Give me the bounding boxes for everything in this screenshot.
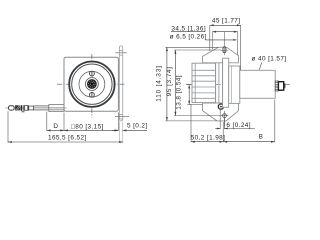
drum inner ring [72,64,112,104]
leader diameter 6,5 [170,34,237,41]
drum outer circle [69,61,114,106]
bracket plate edge-on strip (right of plate) [115,46,129,121]
vertical dim 13,8 [0.54] [176,75,203,110]
flange plates edge-on [216,59,223,107]
ext lines bracket strip down [118,122,120,143]
wire rope centerline [6,107,67,109]
top mounting bracket [203,47,239,63]
ext line eyelet left [7,111,9,142]
dim 6 [0.24] [215,109,255,129]
wire sleeve barrel [34,106,49,110]
leader diameter 40 [252,55,287,69]
dim row1 line: D [47,123,64,131]
dim 34,5 [1.36] [171,26,238,55]
dim 45 [1.77] [210,18,241,70]
bottom mounting bracket [203,103,239,121]
svg-text:95 [3.74]: 95 [3.74] [166,67,173,97]
swivel sleeve [25,106,28,111]
wire outlet block [49,105,64,112]
svg-text:5 [0.2]: 5 [0.2] [127,122,148,129]
hub knurl speckles [89,81,95,87]
dim row1: 5 [0.2] [112,122,148,131]
svg-text:165,5 [6.52]: 165,5 [6.52] [48,134,87,141]
ribbed body [192,63,216,102]
dim row1: square 80 [64,123,118,131]
swivel bar 3 [28,105,29,110]
svg-text:45 [1.77]: 45 [1.77] [212,18,240,25]
ext line plate left [63,113,65,131]
vertical dim 95 [3.74] [166,50,221,116]
bottom bracket hole [221,111,228,126]
hole edges top [119,50,123,52]
hole centerlines [115,52,127,54]
ext line outlet block left [46,112,48,131]
hub center [90,83,93,86]
hole edges bottom [119,113,123,115]
svg-text:B: B [259,134,264,141]
svg-text:110 [4.33]: 110 [4.33] [156,65,163,101]
svg-text:6 [0.24]: 6 [0.24] [226,122,251,129]
crimp ticks below [21,111,23,113]
svg-text:ø 6,5 [0.26]: ø 6,5 [0.26] [170,34,207,41]
hub dark disc [87,79,97,89]
svg-text:50,2 [1.98]: 50,2 [1.98] [191,135,226,142]
screw bottom [90,92,95,97]
dim row2: 165,5 total [8,134,123,143]
swivel sleeve 2 [29,106,34,110]
center lines of drum [57,54,124,118]
axis centerline [186,84,291,86]
wire eyelet [9,106,15,110]
vertical dim 110 [4.33] [156,47,219,121]
svg-text:□80 [3.15]: □80 [3.15] [71,123,104,130]
M12 connector nut [278,82,283,91]
swivel bar 2 [23,105,24,111]
svg-text:D: D [53,123,58,130]
svg-text:ø 40 [1.57]: ø 40 [1.57] [252,55,287,62]
mounting plate square 80x80 [64,57,118,111]
ext line plate right [117,113,119,131]
svg-text:13,8 [0.54]: 13,8 [0.54] [176,75,183,110]
hub ring [86,78,99,91]
inner circle [79,71,105,97]
wire clip block [15,105,20,111]
top bracket hole [221,32,228,56]
wire outlet nipple (side) [218,104,223,109]
M12 connector knurl [275,81,278,91]
encoder cylinder [223,58,276,107]
M12 tip [284,83,286,88]
svg-text:34,5 [1.36]: 34,5 [1.36] [171,26,206,33]
bottom dims 50,2 and B [191,100,275,143]
swivel bar 1 [21,105,23,111]
screw top [90,71,95,76]
